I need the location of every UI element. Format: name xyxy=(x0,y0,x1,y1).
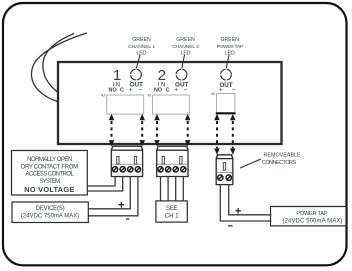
label GREEN POWER TAP LED xyxy=(217,37,243,57)
svg-text:GREEN: GREEN xyxy=(132,37,151,43)
wire CH1 - to devices xyxy=(88,177,137,216)
wire power tap + xyxy=(229,185,272,215)
svg-text:NO: NO xyxy=(109,87,117,93)
connector footprint CH2 xyxy=(147,94,189,115)
svg-text:GREEN: GREEN xyxy=(176,37,195,43)
wire CH1 + to devices xyxy=(88,177,130,209)
wire power tap - xyxy=(220,185,271,221)
svg-text:+: + xyxy=(219,87,223,94)
wire C contact xyxy=(87,177,122,192)
box see ch1 xyxy=(156,201,187,222)
svg-text:4X: 4X xyxy=(147,94,152,98)
pin labels OUT power tap xyxy=(219,82,236,94)
svg-text:SYSTEM: SYSTEM xyxy=(39,179,60,185)
svg-text:NO VOLTAGE: NO VOLTAGE xyxy=(24,185,74,194)
box access control system xyxy=(12,151,88,196)
svg-text:POWER TAP: POWER TAP xyxy=(217,44,243,50)
svg-text:ACCESS CONTROL: ACCESS CONTROL xyxy=(26,172,75,178)
svg-text:NORMALLY OPEN: NORMALLY OPEN xyxy=(27,157,72,163)
pin labels IN OUT channel 2 xyxy=(154,82,189,94)
svg-text:NO: NO xyxy=(154,87,162,93)
connector footprint CH1 xyxy=(101,94,143,115)
svg-text:+: + xyxy=(174,87,178,94)
connector footprint power tap xyxy=(211,92,236,113)
svg-text:4X: 4X xyxy=(211,92,216,96)
LED D1 xyxy=(131,69,142,80)
leader to LED D3 xyxy=(226,55,229,69)
leader to LED D2 xyxy=(182,55,185,69)
terminal block J3 power tap xyxy=(216,155,233,185)
label GREEN CHANNEL 1 LED xyxy=(128,37,155,57)
svg-text:−: − xyxy=(183,87,187,94)
svg-text:(24VDC 500mA MAX): (24VDC 500mA MAX) xyxy=(282,218,342,224)
svg-text:C: C xyxy=(165,87,169,93)
polarity - CH1 xyxy=(126,218,129,220)
svg-text:CHANNEL 1: CHANNEL 1 xyxy=(128,44,155,50)
label removeable connectors xyxy=(262,152,301,166)
polarity + CH1 xyxy=(119,202,125,208)
svg-text:LED: LED xyxy=(225,51,235,57)
svg-text:+: + xyxy=(129,87,133,94)
svg-text:C: C xyxy=(120,87,124,93)
plug-in arrows power tap xyxy=(214,114,235,155)
svg-text:GREEN: GREEN xyxy=(220,37,239,43)
terminal block J2 xyxy=(157,146,188,176)
svg-text:REMOVEABLE: REMOVEABLE xyxy=(264,152,302,158)
LED D3 xyxy=(221,69,232,80)
wire NO contact xyxy=(87,177,115,187)
terminal block J1 xyxy=(111,146,142,176)
box devices xyxy=(12,202,88,223)
svg-text:POWER TAP: POWER TAP xyxy=(296,211,327,217)
svg-text:CONNECTORS: CONNECTORS xyxy=(262,160,297,166)
plug-in arrows CH1 xyxy=(109,114,145,146)
svg-text:(24VDC 750mA MAX): (24VDC 750mA MAX) xyxy=(21,213,79,219)
plug-in arrows CH2 xyxy=(154,114,190,146)
LED D2 xyxy=(176,69,187,80)
polarity + power tap xyxy=(235,208,241,214)
svg-text:4X: 4X xyxy=(101,94,106,98)
svg-text:CHANNEL 2: CHANNEL 2 xyxy=(172,44,199,50)
device outline U1 xyxy=(58,62,282,144)
svg-text:DEVICE(S): DEVICE(S) xyxy=(36,206,65,212)
leader to LED D1 xyxy=(136,55,140,69)
svg-text:CH 1: CH 1 xyxy=(165,214,179,220)
svg-text:LED: LED xyxy=(136,51,146,57)
svg-text:−: − xyxy=(232,87,236,94)
leader to connector J3 xyxy=(240,159,261,168)
polarity - power tap xyxy=(228,225,233,227)
pin labels IN OUT channel 1 xyxy=(109,82,144,94)
wires CH2 to see ch1 xyxy=(161,177,184,201)
svg-text:SEE: SEE xyxy=(166,206,177,212)
svg-text:−: − xyxy=(138,87,142,94)
svg-text:DRY CONTACT FROM: DRY CONTACT FROM xyxy=(21,164,78,170)
cable entering device xyxy=(31,33,87,102)
label GREEN CHANNEL 2 LED xyxy=(172,37,199,57)
svg-text:LED: LED xyxy=(180,51,190,57)
box power tap xyxy=(271,207,347,226)
